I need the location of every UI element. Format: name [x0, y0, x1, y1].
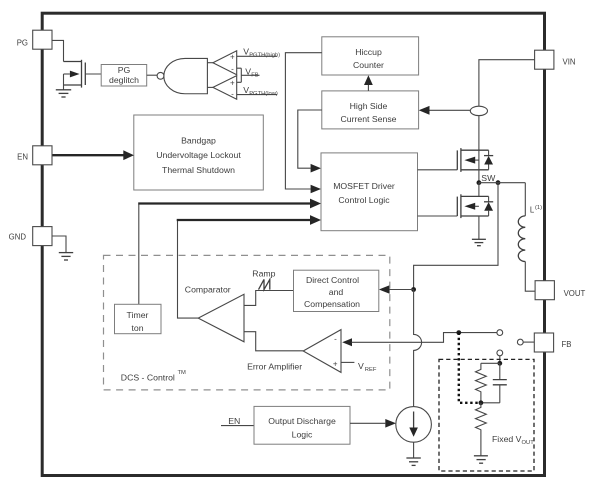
svg-text:Fixed V: Fixed V — [492, 434, 522, 444]
pin EN — [33, 146, 52, 165]
svg-text:GND: GND — [9, 232, 27, 241]
svg-text:-: - — [231, 65, 234, 74]
switch throw contact S1b — [497, 350, 503, 356]
resistor R2 — [476, 403, 487, 456]
wire SW rail — [479, 182, 525, 184]
ground (below Q3) — [56, 90, 71, 97]
wire PG pin to Q3 drain — [52, 40, 63, 61]
Hiccup Counter box — [322, 37, 419, 75]
wire current source to ground — [413, 442, 415, 458]
svg-text:Output Discharge: Output Discharge — [268, 416, 336, 426]
svg-text:Compensation: Compensation — [304, 299, 360, 309]
chip outer border — [42, 13, 544, 475]
MOSFET Driver Control Logic box — [321, 153, 418, 231]
svg-text:PGTH(high): PGTH(high) — [249, 53, 280, 59]
diode D2 (Q2 body diode) — [484, 196, 493, 216]
node C junction (divider top) — [497, 361, 502, 366]
transistor Q3 (PG open-drain NMOS) — [64, 60, 102, 90]
wire node A to direct control (arrow left) — [390, 289, 414, 291]
Output Discharge Logic box — [254, 406, 350, 444]
svg-text:OUT: OUT — [522, 440, 535, 446]
comparator U4 — [198, 294, 244, 342]
svg-text:deglitch: deglitch — [109, 75, 139, 85]
svg-text:Hiccup: Hiccup — [355, 47, 382, 57]
comparator U3 (PG low threshold) — [213, 76, 237, 100]
DCS-Control dashed box — [104, 255, 390, 390]
resistor R1 — [476, 363, 487, 403]
pin FB — [534, 333, 553, 352]
svg-text:+: + — [230, 53, 235, 62]
op-amp U5 (error amplifier) — [303, 330, 341, 373]
wire current sense box to driver logic (arrow) — [298, 110, 322, 168]
svg-text:Undervoltage Lockout: Undervoltage Lockout — [156, 150, 241, 160]
wire FB sense into error amp - input (arrow) — [342, 338, 352, 346]
svg-text:DCS - Control: DCS - Control — [121, 373, 175, 383]
pin GND — [33, 227, 52, 246]
svg-text:-: - — [231, 89, 234, 98]
svg-text:PGTH(low): PGTH(low) — [249, 91, 278, 97]
svg-text:+: + — [230, 78, 235, 87]
NAND gate U6 (mirrored) — [164, 58, 208, 93]
switch pole contact S1c (to FB pin) — [517, 339, 523, 345]
node D junction (divider mid) — [479, 400, 484, 405]
svg-text:V: V — [358, 361, 364, 371]
ramp symbol — [259, 279, 270, 289]
wire U2 + input — [237, 55, 277, 57]
wire comparator top input to direct control — [244, 291, 294, 306]
wire S1b down to divider — [499, 356, 501, 364]
pin VOUT — [535, 281, 554, 300]
wire comparator out to driver logic (thick arrow) — [178, 221, 199, 318]
svg-text:and: and — [329, 287, 344, 297]
svg-text:Logic: Logic — [292, 429, 313, 439]
wire fixed-divider dotted connection — [459, 333, 481, 403]
wire sense to current sense box (arrow left) — [430, 109, 471, 111]
svg-text:EN: EN — [17, 153, 28, 162]
EN input stub — [221, 425, 254, 427]
svg-text:VIN: VIN — [563, 57, 576, 66]
svg-text:ton: ton — [131, 323, 143, 333]
wire hiccup counter to driver logic (arrow) — [285, 53, 321, 189]
pin VIN — [535, 50, 554, 69]
switch throw contact S1a — [497, 330, 503, 336]
Fixed VOUT dashed box — [439, 359, 534, 471]
ground (below R2) — [474, 456, 488, 463]
svg-text:(1): (1) — [535, 205, 542, 211]
svg-text:PG: PG — [17, 38, 28, 47]
wire discharge logic to current source (arrow) — [350, 422, 385, 424]
svg-text:Timer: Timer — [127, 310, 149, 320]
wire deglitch to NAND bubble — [147, 74, 157, 76]
wire divider top — [481, 362, 500, 364]
wire timer to driver logic (thick arrow) — [138, 205, 140, 305]
capacitor C1 — [499, 363, 501, 379]
Bandgap / UVLO / Thermal box — [134, 115, 263, 190]
pin PG — [33, 30, 52, 49]
svg-text:EN: EN — [228, 416, 240, 426]
comparator U2 (PG high threshold) — [213, 51, 237, 75]
inductor L1 — [524, 183, 526, 216]
node A junction — [411, 287, 416, 292]
Timer ton box — [115, 304, 162, 333]
wire node A down to current source with hop over FB line — [414, 290, 422, 407]
wire EN pin to bandgap (thick arrow) — [52, 154, 124, 156]
wire comparator bottom input to error amp output — [244, 332, 303, 351]
current sense element (oval) — [470, 106, 487, 115]
svg-text:Comparator: Comparator — [185, 284, 231, 294]
svg-text:Bandgap: Bandgap — [181, 136, 216, 146]
transistor Q1 (high-side FET) — [418, 148, 489, 183]
wire NAND inputs — [207, 62, 213, 64]
wire VREF stub — [341, 361, 354, 363]
wire SW tap down to junction A — [414, 183, 498, 290]
node SW junctions — [477, 180, 482, 185]
svg-text:FB: FB — [562, 340, 572, 349]
svg-text:Control Logic: Control Logic — [338, 195, 390, 205]
svg-text:High Side: High Side — [350, 101, 388, 111]
svg-text:PG: PG — [118, 65, 131, 75]
wire current sense to hiccup counter (arrow up) — [367, 85, 369, 91]
svg-text:TM: TM — [178, 370, 187, 376]
svg-text:Ramp: Ramp — [252, 269, 275, 279]
wire GND pin to ground — [51, 236, 66, 253]
transistor Q2 (low-side FET) — [418, 183, 489, 240]
svg-text:Direct Control: Direct Control — [306, 275, 359, 285]
svg-text:Thermal Shutdown: Thermal Shutdown — [162, 165, 235, 175]
wire VIN to high-side FET — [479, 60, 535, 151]
svg-text:Current Sense: Current Sense — [340, 114, 396, 124]
ground (below I1) — [406, 458, 420, 465]
svg-text:VOUT: VOUT — [564, 289, 586, 298]
svg-text:-: - — [334, 335, 337, 344]
wire VFB bracket — [237, 68, 260, 82]
diode D1 (Q1 body diode) — [484, 150, 493, 170]
ground (below Q2) — [472, 239, 486, 245]
wire divider mid — [481, 402, 500, 404]
svg-text:+: + — [333, 360, 338, 369]
PG deglitch box — [101, 65, 147, 87]
High Side Current Sense box — [322, 91, 419, 129]
wire U3 - input — [237, 94, 277, 96]
svg-text:MOSFET Driver: MOSFET Driver — [333, 181, 395, 191]
svg-text:Counter: Counter — [353, 60, 384, 70]
svg-text:FB: FB — [251, 72, 259, 78]
svg-text:SW: SW — [481, 173, 496, 183]
current source I1 — [396, 407, 432, 443]
svg-text:Error Amplifier: Error Amplifier — [247, 361, 302, 371]
Direct Control and Compensation box — [294, 270, 379, 311]
node B junction (FB net) — [456, 330, 461, 335]
svg-text:REF: REF — [365, 367, 377, 373]
wire pole to FB pin — [523, 341, 534, 343]
ground (GND pin) — [59, 253, 73, 260]
